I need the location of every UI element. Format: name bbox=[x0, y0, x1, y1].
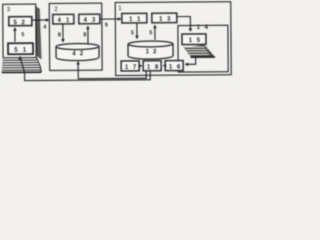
svg-text:1 2: 1 2 bbox=[146, 49, 158, 55]
svg-text:1 6: 1 6 bbox=[169, 64, 182, 70]
svg-text:1 1: 1 1 bbox=[129, 17, 142, 23]
svg-text:5 1: 5 1 bbox=[14, 48, 28, 54]
svg-text:1 5: 1 5 bbox=[189, 38, 202, 44]
svg-text:4 2: 4 2 bbox=[72, 51, 84, 57]
svg-text:9: 9 bbox=[105, 23, 108, 29]
svg-text:8: 8 bbox=[58, 32, 61, 38]
svg-text:1: 1 bbox=[118, 5, 122, 12]
svg-text:5: 5 bbox=[21, 32, 24, 38]
svg-text:4 3: 4 3 bbox=[84, 18, 97, 24]
svg-text:5: 5 bbox=[131, 30, 134, 36]
svg-text:1 8: 1 8 bbox=[147, 65, 160, 71]
svg-text:4: 4 bbox=[43, 25, 46, 31]
svg-text:1 7: 1 7 bbox=[125, 65, 138, 71]
svg-text:3: 3 bbox=[7, 6, 11, 13]
svg-text:2: 2 bbox=[54, 6, 58, 13]
svg-text:5: 5 bbox=[149, 30, 152, 36]
svg-text:4 1: 4 1 bbox=[58, 18, 71, 24]
svg-text:5 2: 5 2 bbox=[13, 20, 26, 26]
svg-text:1 4: 1 4 bbox=[197, 25, 210, 31]
svg-text:1 3: 1 3 bbox=[159, 17, 172, 23]
svg-text:8: 8 bbox=[83, 32, 86, 38]
